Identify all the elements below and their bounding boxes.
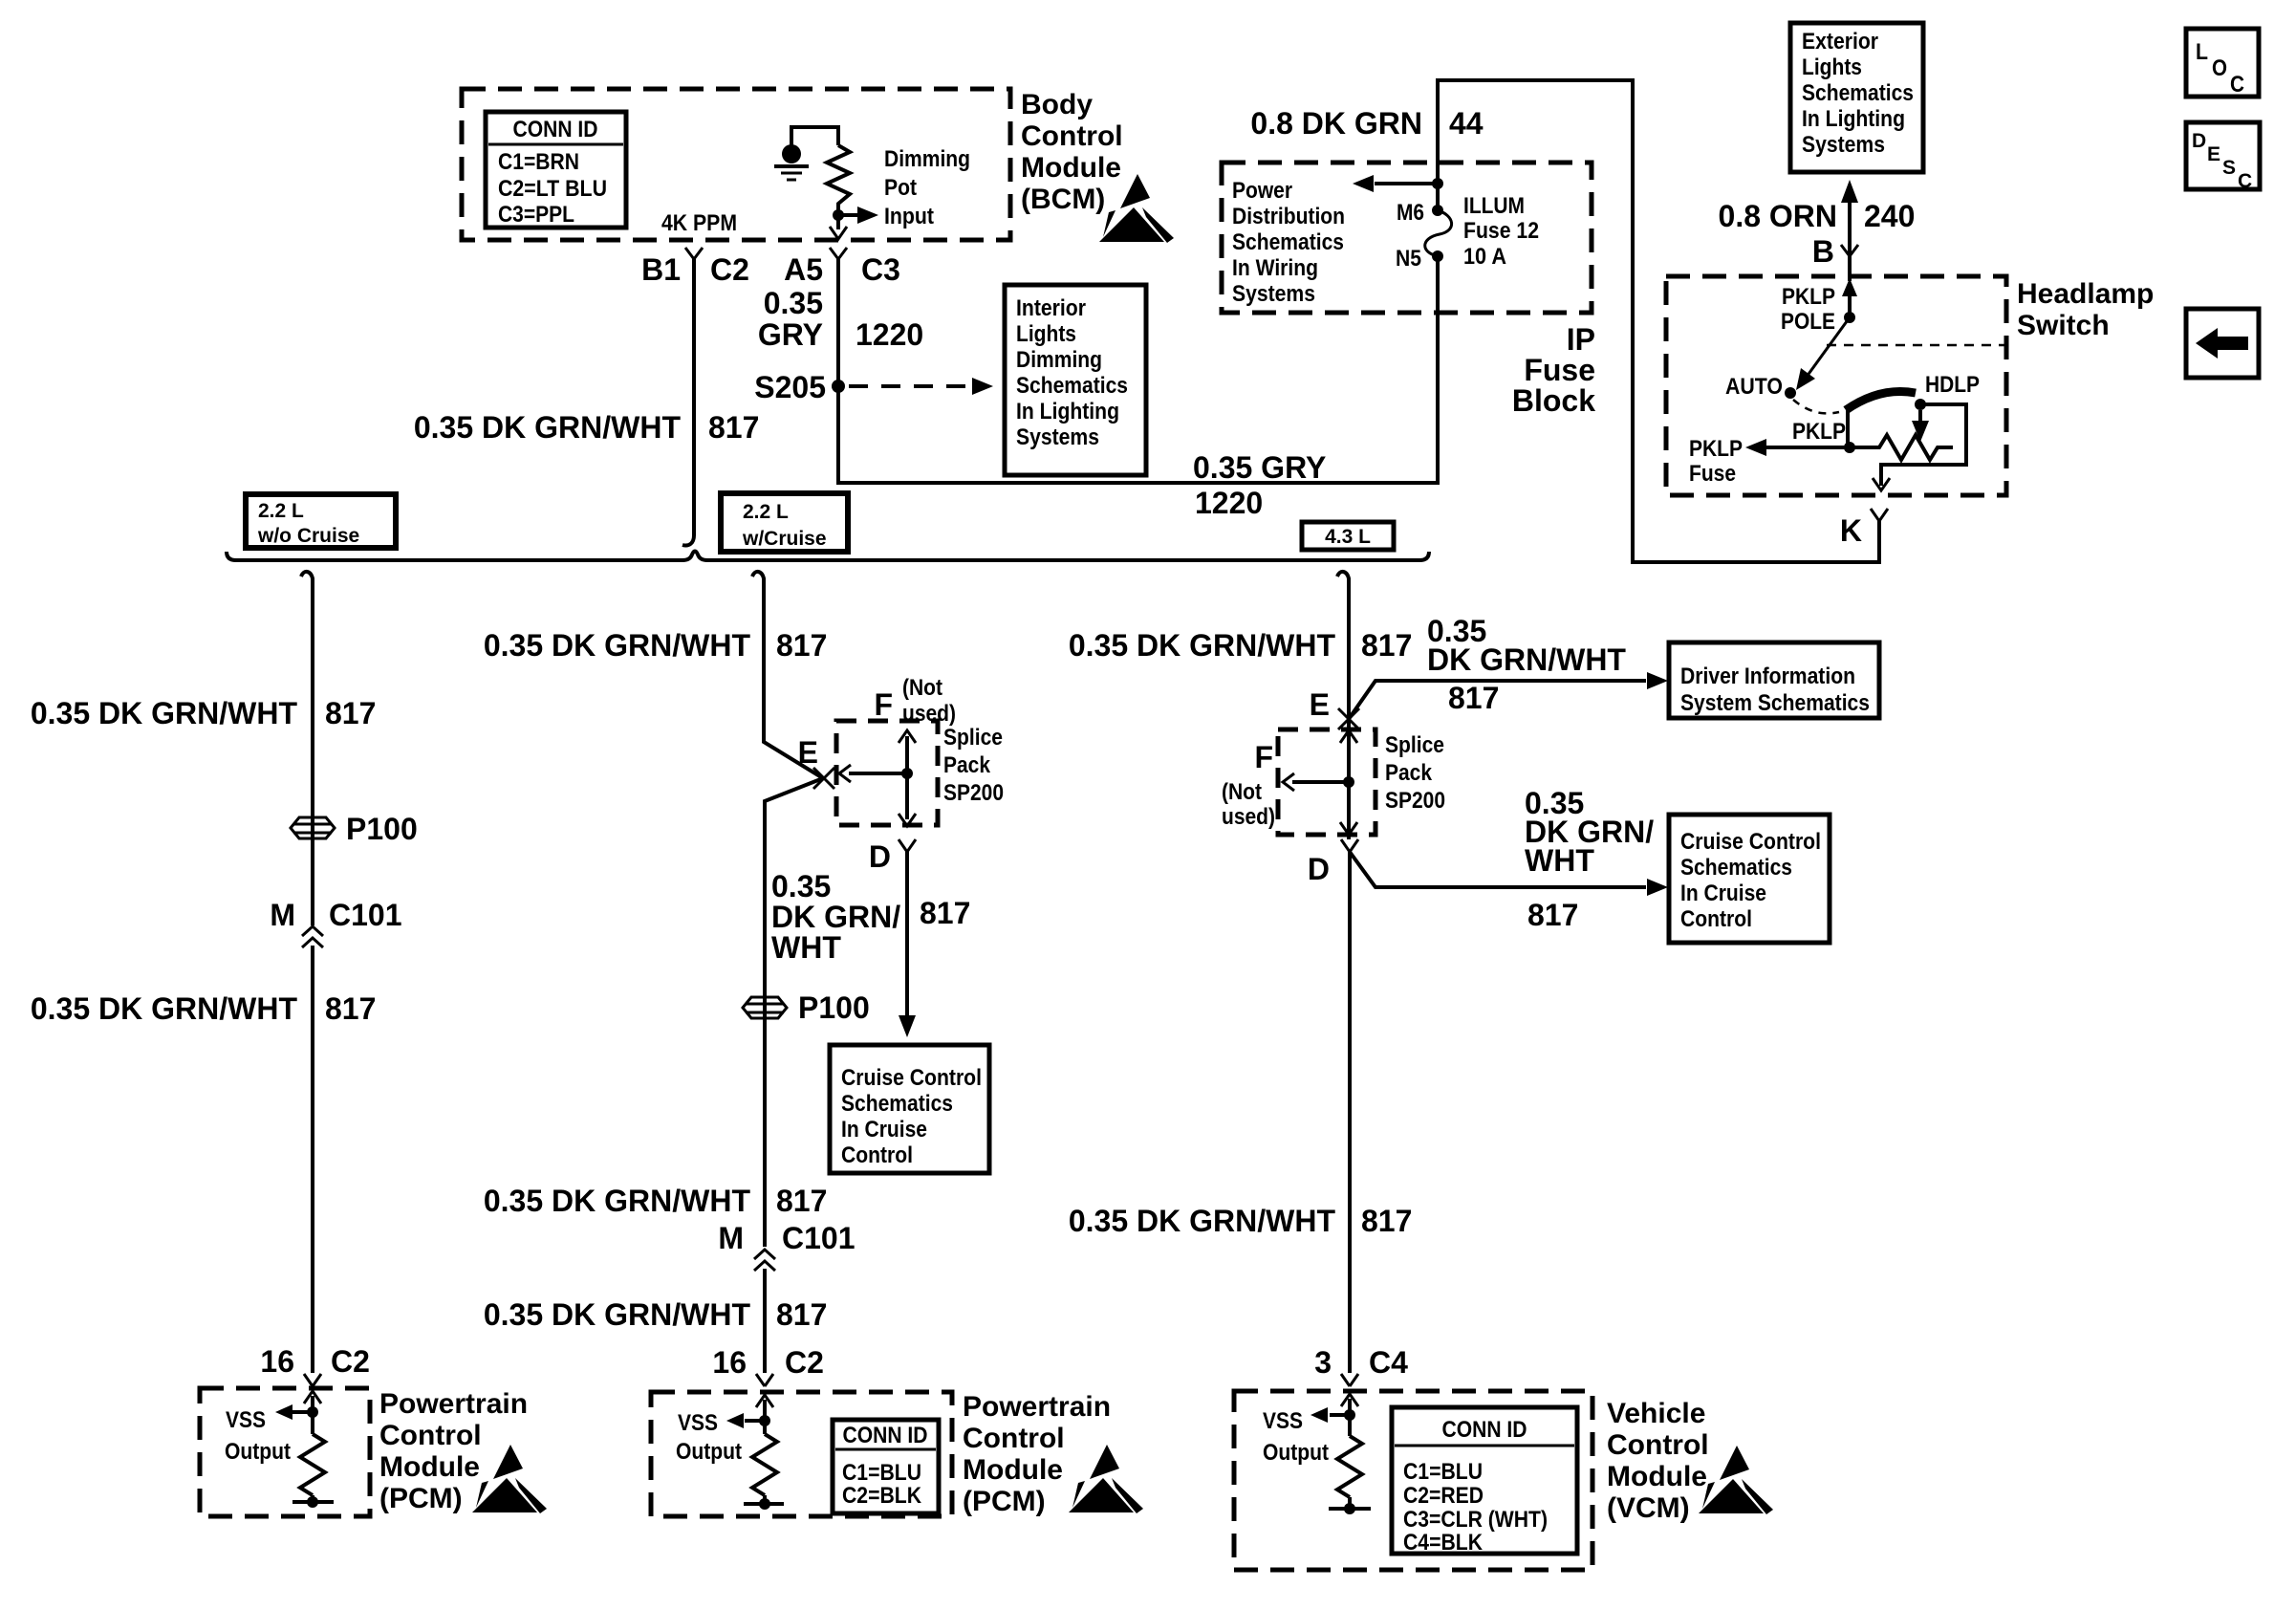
svg-text:In Wiring: In Wiring <box>1232 255 1318 281</box>
resistor (PCM left) <box>300 1434 325 1495</box>
svg-text:Block: Block <box>1512 383 1595 418</box>
module box BCM (dashed) <box>462 89 1010 240</box>
svg-text:0.35: 0.35 <box>764 286 823 320</box>
svg-text:Module: Module <box>379 1451 480 1483</box>
wire VSS output arrow <box>275 1404 313 1420</box>
node VSS junction (VCM) <box>1344 1409 1355 1421</box>
svg-text:Splice: Splice <box>1385 732 1444 758</box>
svg-text:0.35: 0.35 <box>771 869 831 903</box>
svg-text:C1=BLU: C1=BLU <box>1403 1459 1483 1485</box>
svg-text:CONN ID: CONN ID <box>1442 1417 1527 1443</box>
option box 2.2L w/o Cruise <box>246 494 396 548</box>
svg-text:D: D <box>2192 130 2206 152</box>
svg-text:C4: C4 <box>1369 1345 1408 1380</box>
svg-text:DK GRN/WHT: DK GRN/WHT <box>1427 642 1626 677</box>
svg-text:Powertrain: Powertrain <box>379 1388 528 1420</box>
svg-text:0.35 DK GRN/WHT: 0.35 DK GRN/WHT <box>414 410 682 445</box>
svg-text:used): used) <box>1222 804 1275 830</box>
svg-text:L: L <box>2196 39 2208 65</box>
ground stub (middle) <box>744 1495 784 1510</box>
svg-text:Distribution: Distribution <box>1232 204 1345 229</box>
svg-text:Input: Input <box>884 204 934 229</box>
svg-text:B1: B1 <box>641 252 681 287</box>
svg-text:In Lighting: In Lighting <box>1016 399 1119 424</box>
svg-text:817: 817 <box>1527 898 1578 932</box>
wire: PKLP fuse arrow left <box>1745 439 1850 456</box>
splice internal arrows (right) <box>1283 730 1357 835</box>
svg-text:S: S <box>2222 157 2236 179</box>
pin label F + (Not used) <box>874 675 956 727</box>
svg-text:2.2 L: 2.2 L <box>743 501 789 523</box>
pin 16 entry arrow <box>304 1391 321 1434</box>
svg-text:Module: Module <box>1607 1461 1707 1492</box>
node AUTO <box>1785 387 1796 399</box>
svg-text:C: C <box>2230 72 2244 98</box>
svg-text:817: 817 <box>325 991 376 1026</box>
svg-text:Schematics: Schematics <box>1232 229 1344 255</box>
svg-text:817: 817 <box>776 628 827 663</box>
wire: D down arrow to cruise ref <box>899 852 916 1037</box>
ground stub <box>292 1495 334 1508</box>
wire: GRY 1220 wire from A5 down, right to fuse block <box>838 256 1438 483</box>
svg-text:F: F <box>1254 740 1273 774</box>
svg-text:w/Cruise: w/Cruise <box>742 528 827 550</box>
wire: left branch hook + vertical <box>301 572 313 1373</box>
svg-text:M6: M6 <box>1397 200 1424 226</box>
svg-text:C3=PPL: C3=PPL <box>498 202 574 228</box>
svg-text:C2: C2 <box>710 252 749 287</box>
svg-text:Dimming: Dimming <box>1016 347 1102 373</box>
pin label F + (Not used) (right) <box>1222 740 1275 830</box>
svg-text:Control: Control <box>1607 1429 1709 1461</box>
svg-text:Control: Control <box>379 1420 482 1451</box>
wiper arrow down to resistor <box>1912 410 1929 442</box>
svg-text:(Not: (Not <box>1222 779 1262 805</box>
switch arm (thick) PKLP-HDLP <box>1846 391 1916 410</box>
node HDLP <box>1915 399 1926 410</box>
connector D (Y) <box>869 839 916 874</box>
connector C101 (middle) <box>718 1221 855 1271</box>
node: pot wiper junction <box>833 209 844 221</box>
option box 4.3L <box>1302 522 1394 550</box>
svg-text:C2=LT BLU: C2=LT BLU <box>498 176 607 202</box>
svg-text:10 A: 10 A <box>1463 244 1506 270</box>
svg-text:C1=BRN: C1=BRN <box>498 149 579 175</box>
wire: HDLP to K exit <box>1873 404 1966 490</box>
svg-text:CONN ID: CONN ID <box>843 1423 928 1448</box>
DESC box <box>2186 122 2260 192</box>
svg-text:Schematics: Schematics <box>1680 855 1792 881</box>
label Power Distribution Schematics In Wiring Systems <box>1232 178 1345 307</box>
svg-text:Dimming: Dimming <box>884 146 970 172</box>
svg-text:HDLP: HDLP <box>1925 372 1980 398</box>
svg-text:817: 817 <box>776 1297 827 1332</box>
svg-text:In Cruise: In Cruise <box>841 1117 927 1142</box>
inner dashed divider <box>1827 344 2004 347</box>
svg-text:ILLUM: ILLUM <box>1463 193 1525 219</box>
svg-text:DK GRN/: DK GRN/ <box>771 900 900 934</box>
back-arrow box <box>2186 309 2259 378</box>
svg-text:C2=BLK: C2=BLK <box>842 1483 922 1509</box>
svg-text:C101: C101 <box>329 898 402 932</box>
svg-text:AUTO: AUTO <box>1725 374 1783 400</box>
node POLE <box>1844 312 1855 323</box>
connector K (Y) <box>1871 509 1888 521</box>
svg-text:Switch: Switch <box>2017 310 2110 341</box>
svg-text:Cruise Control: Cruise Control <box>841 1065 982 1091</box>
node S205 <box>832 380 845 393</box>
wire: E branch to Driver Information <box>1349 672 1668 719</box>
svg-text:Lights: Lights <box>1802 54 1862 80</box>
svg-text:P100: P100 <box>798 990 870 1025</box>
svg-text:Control: Control <box>1680 906 1752 932</box>
svg-text:B: B <box>1812 234 1834 269</box>
wire VSS output arrow (middle) <box>726 1413 765 1428</box>
label 0.35 DK GRN/WHT 817 (to driver info) <box>1427 614 1626 715</box>
connector 3/C4 (Y) <box>1341 1374 1358 1386</box>
svg-text:Fuse: Fuse <box>1689 461 1736 487</box>
connector 16/C2 (Y, middle) <box>756 1374 773 1386</box>
label Powertrain Control Module (PCM) middle <box>963 1391 1111 1517</box>
svg-text:M: M <box>718 1221 744 1255</box>
ESD symbol (VCM) <box>1699 1446 1773 1514</box>
connector C101 (left, chevrons) <box>270 898 401 947</box>
CONN ID table (VCM) <box>1392 1407 1577 1556</box>
svg-text:Schematics: Schematics <box>841 1091 953 1117</box>
module box PCM w/cruise (dashed) <box>651 1392 952 1516</box>
svg-text:Splice: Splice <box>943 725 1003 751</box>
pin 3 entry arrow <box>1341 1394 1358 1436</box>
reference box: Driver Information System Schematics <box>1669 642 1879 718</box>
svg-text:C3: C3 <box>861 252 900 287</box>
svg-text:Cruise Control: Cruise Control <box>1680 829 1821 855</box>
svg-text:1220: 1220 <box>1195 486 1263 520</box>
svg-text:C1=BLU: C1=BLU <box>842 1460 921 1486</box>
svg-text:0.35 DK GRN/WHT: 0.35 DK GRN/WHT <box>484 628 751 663</box>
label IP Fuse Block <box>1512 322 1595 418</box>
svg-text:Output: Output <box>676 1439 742 1465</box>
wire B into headlamp box <box>1848 256 1852 281</box>
svg-text:2.2 L: 2.2 L <box>258 500 304 522</box>
label 0.35 DK GRN/ WHT 817 <box>771 869 970 965</box>
module box Headlamp Switch (dashed) <box>1666 276 2006 495</box>
svg-text:240: 240 <box>1864 199 1915 233</box>
label Splice Pack SP200 <box>943 725 1004 806</box>
svg-text:E: E <box>798 735 818 770</box>
LOC box <box>2186 29 2259 98</box>
svg-text:PKLP: PKLP <box>1792 419 1846 445</box>
svg-text:A5: A5 <box>784 252 823 287</box>
CONN ID table (PCM middle) <box>833 1420 939 1513</box>
svg-text:used): used) <box>902 701 956 727</box>
wire: D branch to Cruise Control ref <box>1350 852 1668 896</box>
node VSS junction (middle) <box>759 1415 770 1426</box>
reference box: Cruise Control Schematics (right) <box>1669 815 1830 943</box>
wire: reference arrow left to Power Distribution <box>1353 175 1438 192</box>
svg-text:(PCM): (PCM) <box>379 1483 463 1514</box>
connector 16/C2 (Y) <box>304 1374 321 1386</box>
svg-text:(BCM): (BCM) <box>1021 184 1105 215</box>
svg-text:Schematics: Schematics <box>1016 373 1128 399</box>
svg-text:Schematics: Schematics <box>1802 80 1914 106</box>
wire: dashed reference arrow to Interior Lights <box>849 378 993 395</box>
ground (inside BCM) <box>774 127 838 180</box>
svg-text:Output: Output <box>225 1439 291 1465</box>
svg-text:Control: Control <box>963 1423 1065 1454</box>
svg-text:O: O <box>2212 55 2227 81</box>
svg-text:SP200: SP200 <box>1385 788 1445 814</box>
option box 2.2L w/Cruise <box>721 493 848 552</box>
svg-text:16: 16 <box>260 1344 294 1379</box>
resistor dimming pot <box>827 145 850 215</box>
option split brace <box>227 552 1429 561</box>
svg-text:817: 817 <box>920 896 970 930</box>
svg-text:PKLP: PKLP <box>1689 436 1743 462</box>
svg-text:0.35 DK GRN/WHT: 0.35 DK GRN/WHT <box>1069 628 1336 663</box>
module box PCM w/o cruise (dashed) <box>200 1388 370 1516</box>
svg-text:Power: Power <box>1232 178 1292 204</box>
ground stub (VCM) <box>1329 1497 1371 1514</box>
grommet P100 (middle) <box>743 990 870 1025</box>
connector B1/C2 (Y) <box>685 248 703 259</box>
svg-text:D: D <box>869 839 891 874</box>
label Vehicle Control Module (VCM) <box>1607 1398 1709 1524</box>
grommet P100 (left) <box>291 812 418 846</box>
svg-text:1220: 1220 <box>856 317 923 352</box>
svg-text:4.3 L: 4.3 L <box>1325 526 1371 548</box>
svg-text:0.35 DK GRN/WHT: 0.35 DK GRN/WHT <box>484 1184 751 1218</box>
svg-text:C4=BLK: C4=BLK <box>1403 1530 1484 1556</box>
svg-text:Systems: Systems <box>1232 281 1315 307</box>
wire VSS output arrow (VCM) <box>1310 1407 1350 1423</box>
svg-text:817: 817 <box>1448 681 1499 715</box>
reference box: Interior Lights Dimming Schematics <box>1005 285 1146 475</box>
svg-text:Pot: Pot <box>884 175 917 201</box>
svg-text:C3=CLR (WHT): C3=CLR (WHT) <box>1403 1507 1548 1533</box>
svg-text:3: 3 <box>1314 1345 1332 1380</box>
svg-text:WHT: WHT <box>1525 843 1594 878</box>
connector A5/C3 (Y) <box>830 248 847 259</box>
svg-text:D: D <box>1308 852 1330 886</box>
node VSS junction <box>307 1406 318 1418</box>
svg-text:Driver Information: Driver Information <box>1680 664 1855 689</box>
svg-text:817: 817 <box>1361 628 1412 663</box>
label ILLUM Fuse 12 10 A <box>1463 193 1539 270</box>
svg-text:In Lighting: In Lighting <box>1802 106 1905 132</box>
module box VCM (dashed) <box>1234 1391 1592 1570</box>
svg-text:Headlamp: Headlamp <box>2017 278 2154 310</box>
splice internal arrows <box>839 730 916 826</box>
svg-text:Module: Module <box>1021 152 1121 184</box>
svg-text:K: K <box>1840 513 1862 548</box>
svg-text:(VCM): (VCM) <box>1607 1492 1690 1524</box>
svg-text:Systems: Systems <box>1802 132 1885 158</box>
svg-text:Pack: Pack <box>1385 760 1433 786</box>
resistor (PCM middle) <box>752 1434 777 1495</box>
svg-text:C2: C2 <box>785 1345 824 1380</box>
svg-text:Module: Module <box>963 1454 1063 1486</box>
wire: middle branch hook + vertical with E jog <box>752 572 823 1373</box>
svg-text:Systems: Systems <box>1016 424 1099 450</box>
resistor (VCM) <box>1337 1436 1362 1497</box>
svg-text:POLE: POLE <box>1781 309 1835 335</box>
svg-text:VSS: VSS <box>678 1410 718 1436</box>
svg-text:Body: Body <box>1021 89 1093 120</box>
wire: wiper arrow (Dimming Pot Input) <box>838 207 878 224</box>
svg-text:0.35 DK GRN/WHT: 0.35 DK GRN/WHT <box>484 1297 751 1332</box>
svg-text:GRY: GRY <box>758 317 823 352</box>
svg-text:E: E <box>2207 143 2220 165</box>
svg-text:Control: Control <box>1021 120 1123 152</box>
ESD symbol (BCM) <box>1099 174 1174 243</box>
svg-text:C: C <box>2238 170 2252 192</box>
module box IP Fuse Block (dashed) <box>1222 163 1592 313</box>
connector D (Y, right) <box>1308 839 1358 886</box>
svg-text:N5: N5 <box>1396 246 1421 272</box>
CONN ID table (BCM) <box>486 112 626 228</box>
svg-text:0.35 GRY: 0.35 GRY <box>1193 450 1326 485</box>
svg-text:C2=RED: C2=RED <box>1403 1483 1484 1509</box>
svg-text:Pack: Pack <box>943 752 991 778</box>
svg-text:VSS: VSS <box>1263 1408 1303 1434</box>
fuse ILLUM Fuse 12 <box>1425 205 1452 262</box>
svg-text:Powertrain: Powertrain <box>963 1391 1111 1423</box>
svg-text:Fuse 12: Fuse 12 <box>1463 218 1539 244</box>
svg-text:Exterior: Exterior <box>1802 29 1878 54</box>
svg-text:E: E <box>1310 687 1330 722</box>
svg-text:Lights: Lights <box>1016 321 1076 347</box>
svg-text:Output: Output <box>1263 1440 1329 1466</box>
wire: right branch hook + vertical <box>1337 572 1350 1373</box>
reference box: Exterior Lights Schematics <box>1790 23 1923 172</box>
svg-text:In Cruise: In Cruise <box>1680 881 1766 906</box>
svg-text:0.35 DK GRN/WHT: 0.35 DK GRN/WHT <box>31 696 298 730</box>
svg-text:w/o Cruise: w/o Cruise <box>257 525 359 547</box>
wire arm to PKLP junction <box>1846 410 1850 447</box>
svg-text:(PCM): (PCM) <box>963 1486 1046 1517</box>
node PKLP junction <box>1844 442 1855 453</box>
label Body Control Module (BCM) <box>1021 89 1123 215</box>
svg-text:VSS: VSS <box>226 1407 266 1433</box>
connector B (Y) <box>1841 245 1858 256</box>
svg-text:0.35 DK GRN/WHT: 0.35 DK GRN/WHT <box>1069 1204 1336 1238</box>
svg-text:P100: P100 <box>346 812 418 846</box>
svg-text:817: 817 <box>776 1184 827 1218</box>
svg-text:0.8 ORN: 0.8 ORN <box>1719 199 1837 233</box>
svg-text:(Not: (Not <box>902 675 942 701</box>
switch wiper arm POLE to AUTO (arrow) <box>1796 317 1850 390</box>
wire: fuse feed up and loop over to headlamp switch K <box>1438 80 1879 562</box>
resistor (headlamp dimmer) horizontal <box>1850 435 1953 460</box>
svg-text:C2: C2 <box>331 1344 370 1379</box>
svg-text:C101: C101 <box>782 1221 856 1255</box>
svg-text:System Schematics: System Schematics <box>1680 690 1870 716</box>
label Dimming Pot Input <box>884 146 970 229</box>
label 0.35 DK GRN/ WHT 817 (right) <box>1525 786 1654 932</box>
svg-text:PKLP: PKLP <box>1782 284 1835 310</box>
svg-text:817: 817 <box>708 410 759 445</box>
svg-text:817: 817 <box>325 696 376 730</box>
reference box: Cruise Control Schematics (middle) <box>830 1045 989 1173</box>
pin 16 entry arrow <box>756 1395 773 1434</box>
svg-text:SP200: SP200 <box>943 780 1004 806</box>
node junction at 44 wire <box>1432 178 1443 189</box>
svg-text:817: 817 <box>1361 1204 1412 1238</box>
wire: B1 wire down to brace <box>682 259 694 546</box>
svg-text:F: F <box>874 687 893 722</box>
svg-text:CONN ID: CONN ID <box>513 117 598 142</box>
svg-text:Fuse: Fuse <box>1524 353 1595 387</box>
wire: POLE up arrow <box>1842 278 1857 317</box>
svg-text:WHT: WHT <box>771 930 841 965</box>
svg-text:Control: Control <box>841 1142 913 1168</box>
svg-text:16: 16 <box>712 1345 747 1380</box>
svg-text:Interior: Interior <box>1016 295 1086 321</box>
wire: A5 pin exit arrow <box>830 215 847 239</box>
svg-text:0.35 DK GRN/WHT: 0.35 DK GRN/WHT <box>31 991 298 1026</box>
dashed travel arc <box>1793 400 1839 413</box>
splice pack SP200 (middle, dashed) <box>836 721 938 825</box>
svg-text:S205: S205 <box>754 370 826 404</box>
ESD symbol (PCM middle) <box>1069 1445 1143 1513</box>
svg-text:4K PPM: 4K PPM <box>661 210 737 236</box>
svg-text:0.8 DK GRN: 0.8 DK GRN <box>1250 106 1422 141</box>
svg-text:M: M <box>270 898 295 932</box>
svg-text:44: 44 <box>1449 106 1484 141</box>
splice pack SP200 (right, dashed) <box>1278 729 1375 835</box>
label Powertrain Control Module (PCM) <box>379 1388 528 1514</box>
svg-text:Vehicle: Vehicle <box>1607 1398 1705 1429</box>
label Splice Pack SP200 (right) <box>1385 732 1445 814</box>
connector E (X, right) <box>1310 687 1359 729</box>
connector E (X) <box>798 735 834 789</box>
wire: 0.8 ORN 240 up arrow <box>1841 180 1858 256</box>
svg-text:IP: IP <box>1567 322 1595 357</box>
ESD symbol (PCM left) <box>472 1445 547 1513</box>
